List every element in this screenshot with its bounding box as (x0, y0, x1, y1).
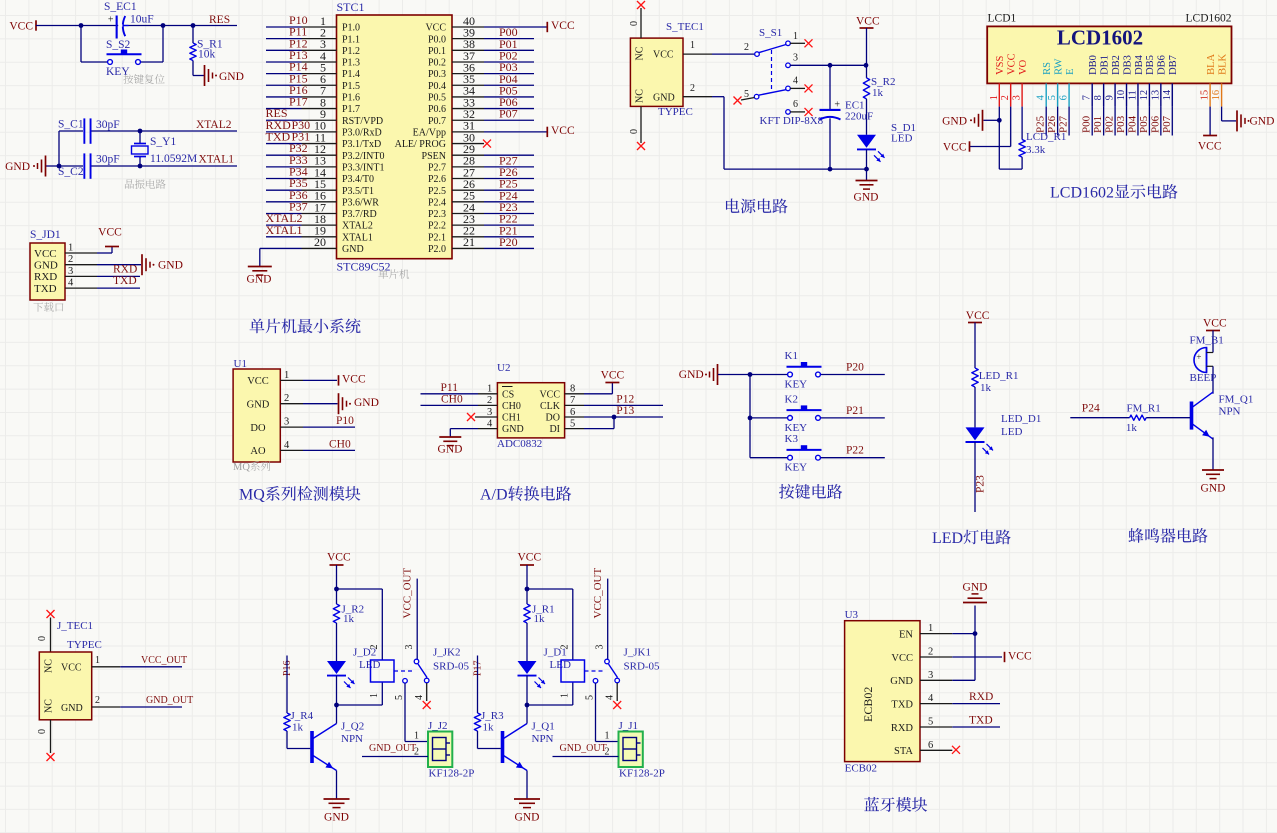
svg-text:P2.4: P2.4 (428, 197, 446, 208)
svg-text:+: + (834, 100, 840, 111)
svg-text:4: 4 (1036, 94, 1047, 100)
svg-text:5: 5 (570, 418, 575, 429)
svg-text:8: 8 (1093, 95, 1104, 100)
svg-text:7: 7 (570, 395, 575, 406)
svg-text:GND: GND (324, 812, 349, 824)
svg-text:P1.4: P1.4 (342, 69, 360, 80)
svg-text:DB0: DB0 (1088, 55, 1099, 75)
svg-text:P2.6: P2.6 (428, 174, 446, 185)
svg-text:P2.1: P2.1 (428, 232, 446, 243)
svg-text:TXD: TXD (969, 714, 993, 726)
svg-text:P03: P03 (1115, 115, 1127, 133)
svg-text:4: 4 (284, 440, 290, 451)
svg-text:220uF: 220uF (845, 111, 873, 123)
svg-text:GND: GND (247, 400, 270, 411)
svg-text:9: 9 (1105, 95, 1116, 100)
svg-text:GND_OUT: GND_OUT (146, 695, 193, 706)
svg-text:5: 5 (585, 695, 596, 700)
svg-text:BLA: BLA (1206, 53, 1217, 74)
svg-text:1: 1 (369, 693, 380, 698)
svg-text:VCC: VCC (247, 376, 269, 387)
svg-text:VCC_OUT: VCC_OUT (592, 567, 604, 618)
svg-text:1k: 1k (292, 722, 304, 734)
svg-text:LCD1602: LCD1602 (1050, 185, 1114, 202)
svg-text:CH0: CH0 (502, 401, 521, 412)
svg-text:LED: LED (550, 659, 571, 671)
svg-text:E: E (1065, 68, 1076, 74)
svg-text:13: 13 (1150, 90, 1161, 101)
svg-text:RES: RES (209, 14, 230, 26)
svg-text:J_R4: J_R4 (291, 710, 314, 722)
svg-text:1k: 1k (483, 722, 495, 734)
svg-text:SRD-05: SRD-05 (624, 661, 661, 673)
svg-text:EA/Vpp: EA/Vpp (413, 127, 446, 138)
svg-text:J_J2: J_J2 (428, 720, 448, 732)
svg-text:2: 2 (744, 42, 749, 53)
svg-text:J_JK2: J_JK2 (433, 647, 461, 659)
svg-text:GND: GND (247, 274, 272, 286)
svg-text:P0.0: P0.0 (428, 34, 446, 45)
svg-text:3: 3 (284, 417, 289, 428)
svg-text:VCC: VCC (34, 248, 57, 260)
svg-text:3: 3 (928, 670, 933, 681)
svg-text:P3.2/INT0: P3.2/INT0 (342, 151, 385, 162)
svg-text:P0.5: P0.5 (428, 93, 446, 104)
svg-text:RXD: RXD (969, 691, 993, 703)
svg-text:3.3k: 3.3k (1026, 144, 1046, 156)
svg-text:VCC: VCC (425, 23, 446, 34)
svg-text:20: 20 (314, 235, 326, 249)
svg-text:1: 1 (284, 370, 289, 381)
svg-text:KEY: KEY (785, 379, 808, 391)
svg-text:2: 2 (284, 393, 289, 404)
svg-text:1: 1 (793, 31, 798, 42)
svg-text:XTAL1: XTAL1 (342, 232, 373, 243)
svg-text:FM_R1: FM_R1 (1127, 403, 1161, 415)
svg-text:4: 4 (793, 76, 798, 87)
svg-text:VCC: VCC (1007, 53, 1018, 75)
svg-text:S_S2: S_S2 (106, 39, 131, 51)
svg-text:P02: P02 (1104, 116, 1116, 133)
svg-text:P13: P13 (616, 405, 634, 417)
svg-text:J_J1: J_J1 (619, 720, 639, 732)
svg-text:VCC: VCC (518, 552, 542, 564)
svg-text:1: 1 (928, 623, 933, 634)
svg-text:NPN: NPN (532, 733, 554, 745)
svg-text:TYPEC: TYPEC (658, 106, 693, 118)
svg-text:P1.1: P1.1 (342, 34, 360, 45)
svg-text:CLK: CLK (540, 401, 561, 412)
svg-text:RW: RW (1053, 58, 1064, 74)
svg-text:10: 10 (1116, 90, 1127, 101)
svg-text:GND: GND (963, 582, 988, 594)
svg-text:P24: P24 (1082, 403, 1100, 415)
svg-text:LED: LED (1001, 426, 1022, 438)
svg-text:STC89C52: STC89C52 (337, 260, 391, 274)
svg-text:1k: 1k (343, 613, 355, 625)
svg-text:TXD: TXD (34, 283, 57, 295)
svg-text:P0.7: P0.7 (428, 116, 446, 127)
svg-text:2: 2 (928, 647, 933, 658)
svg-text:TXD: TXD (266, 130, 291, 144)
svg-text:1k: 1k (534, 613, 546, 625)
svg-text:VCC: VCC (551, 125, 575, 137)
svg-text:NC: NC (44, 659, 55, 673)
svg-text:PSEN: PSEN (422, 151, 446, 162)
svg-text:U2: U2 (497, 362, 510, 374)
svg-text:GND: GND (219, 71, 244, 83)
svg-text:P3.1/TxD: P3.1/TxD (342, 139, 381, 150)
svg-text:KEY: KEY (106, 66, 130, 78)
svg-text:16: 16 (1211, 90, 1222, 101)
svg-text:P10: P10 (336, 415, 354, 427)
svg-text:NPN: NPN (1219, 406, 1241, 418)
svg-text:P21: P21 (846, 405, 864, 417)
svg-text:J_TEC1: J_TEC1 (57, 620, 93, 632)
svg-text:7: 7 (1082, 95, 1093, 100)
svg-text:6: 6 (793, 99, 798, 110)
svg-text:GND: GND (34, 260, 58, 272)
svg-text:P12: P12 (616, 394, 634, 406)
svg-text:1k: 1k (980, 382, 992, 394)
svg-text:30pF: 30pF (96, 119, 120, 131)
svg-text:CH0: CH0 (329, 438, 351, 450)
svg-text:10uF: 10uF (130, 14, 154, 26)
svg-text:3: 3 (1012, 95, 1023, 100)
svg-text:4: 4 (928, 693, 934, 704)
svg-text:S_Y1: S_Y1 (150, 136, 176, 148)
svg-text:8: 8 (570, 384, 575, 395)
svg-text:P0.6: P0.6 (428, 104, 446, 115)
svg-text:U1: U1 (234, 358, 247, 370)
svg-text:P1.7: P1.7 (342, 104, 360, 115)
svg-text:2: 2 (560, 645, 571, 650)
svg-text:GND_OUT: GND_OUT (560, 743, 607, 754)
svg-text:ECB02: ECB02 (861, 687, 875, 722)
svg-text:DO: DO (250, 423, 266, 434)
svg-text:11.0592M: 11.0592M (150, 153, 197, 165)
svg-text:P0.3: P0.3 (428, 69, 446, 80)
svg-text:P3.4/T0: P3.4/T0 (342, 174, 374, 185)
svg-text:DB4: DB4 (1134, 54, 1145, 75)
svg-text:+: + (1196, 352, 1201, 362)
svg-text:GND: GND (515, 812, 540, 824)
svg-text:5: 5 (1047, 95, 1058, 100)
svg-text:2: 2 (369, 645, 380, 650)
svg-text:K3: K3 (785, 433, 799, 445)
svg-text:5: 5 (394, 695, 405, 700)
svg-text:21: 21 (463, 235, 475, 249)
svg-text:2: 2 (690, 83, 695, 94)
svg-text:12: 12 (1139, 90, 1150, 101)
svg-text:2: 2 (1000, 95, 1011, 100)
svg-text:10k: 10k (198, 49, 216, 61)
svg-text:P20: P20 (846, 362, 864, 374)
svg-text:VCC: VCC (966, 310, 990, 322)
svg-text:15: 15 (1200, 90, 1211, 101)
svg-text:FM_B1: FM_B1 (1190, 335, 1224, 347)
svg-text:DB1: DB1 (1099, 55, 1110, 75)
svg-text:VCC: VCC (327, 552, 351, 564)
svg-text:P00: P00 (1081, 115, 1093, 133)
svg-text:VCC: VCC (891, 653, 913, 664)
svg-text:LCD1602: LCD1602 (1186, 13, 1232, 25)
svg-text:P1.0: P1.0 (342, 23, 360, 34)
svg-text:S_JD1: S_JD1 (30, 229, 61, 241)
svg-text:P1.3: P1.3 (342, 58, 360, 69)
svg-text:5: 5 (928, 717, 933, 728)
svg-text:1: 1 (690, 40, 695, 51)
svg-text:P11: P11 (441, 382, 459, 394)
svg-text:NC: NC (635, 46, 646, 60)
svg-text:P2.2: P2.2 (428, 221, 446, 232)
svg-text:LED_R1: LED_R1 (979, 370, 1019, 382)
svg-text:LED: LED (359, 659, 380, 671)
svg-text:BLK: BLK (1217, 53, 1228, 74)
svg-text:VCC: VCC (342, 374, 366, 386)
svg-text:DB6: DB6 (1157, 55, 1168, 75)
svg-text:S_TEC1: S_TEC1 (666, 21, 704, 33)
svg-text:P0.1: P0.1 (428, 46, 446, 57)
svg-text:P20: P20 (499, 235, 518, 249)
svg-text:P2.7: P2.7 (428, 162, 446, 173)
svg-text:4: 4 (605, 695, 616, 700)
svg-text:LCD1602: LCD1602 (1057, 26, 1143, 50)
svg-text:K1: K1 (785, 350, 798, 362)
svg-text:GND: GND (342, 244, 364, 255)
svg-text:DB7: DB7 (1168, 55, 1179, 75)
svg-text:RXD: RXD (113, 264, 137, 276)
svg-text:S_C1: S_C1 (58, 119, 84, 131)
svg-text:ALE/ PROG: ALE/ PROG (395, 139, 446, 150)
svg-text:MQ: MQ (233, 462, 250, 473)
svg-text:RXD: RXD (891, 723, 914, 734)
svg-text:P22: P22 (846, 445, 864, 457)
svg-text:J_JK1: J_JK1 (624, 647, 652, 659)
svg-text:VCC_OUT: VCC_OUT (401, 567, 413, 618)
svg-text:3: 3 (595, 645, 606, 650)
svg-text:3: 3 (68, 266, 73, 277)
svg-text:GND: GND (61, 703, 83, 714)
svg-text:3: 3 (404, 645, 415, 650)
svg-text:STC1: STC1 (337, 0, 365, 14)
svg-text:J_Q2: J_Q2 (341, 721, 364, 733)
svg-text:1k: 1k (1126, 422, 1138, 434)
svg-text:1: 1 (95, 655, 100, 666)
svg-text:P3.3/INT1: P3.3/INT1 (342, 162, 385, 173)
svg-text:U3: U3 (845, 609, 859, 621)
svg-text:P1.5: P1.5 (342, 81, 360, 92)
svg-text:P2.3: P2.3 (428, 209, 446, 220)
svg-text:EN: EN (899, 629, 913, 640)
svg-text:NC: NC (44, 699, 55, 713)
svg-text:S_S1: S_S1 (759, 27, 782, 39)
svg-text:DB3: DB3 (1122, 55, 1133, 75)
svg-text:GND_OUT: GND_OUT (369, 743, 416, 754)
svg-text:11: 11 (1127, 90, 1138, 100)
svg-text:VCC: VCC (653, 50, 674, 61)
svg-text:VCC: VCC (98, 227, 122, 239)
svg-text:TYPEC: TYPEC (67, 639, 102, 651)
svg-text:LED: LED (932, 530, 963, 547)
svg-text:K2: K2 (785, 393, 798, 405)
svg-text:STA: STA (894, 746, 913, 757)
svg-text:NC: NC (635, 89, 646, 103)
svg-text:6: 6 (1059, 95, 1070, 100)
svg-text:2: 2 (95, 695, 100, 706)
svg-text:GND: GND (942, 115, 967, 127)
svg-text:ECB02: ECB02 (845, 763, 877, 775)
svg-text:BEEP: BEEP (1190, 372, 1217, 384)
svg-text:P3.5/T1: P3.5/T1 (342, 186, 374, 197)
svg-text:GND: GND (653, 92, 675, 103)
svg-text:1: 1 (68, 243, 73, 254)
svg-text:4: 4 (68, 278, 74, 289)
svg-text:VCC: VCC (1198, 141, 1222, 153)
svg-text:DO: DO (546, 413, 560, 424)
svg-text:2: 2 (68, 254, 73, 265)
svg-text:LED: LED (891, 133, 912, 145)
svg-text:XTAL2: XTAL2 (342, 221, 373, 232)
svg-text:VSS: VSS (995, 55, 1006, 74)
svg-text:LCD1: LCD1 (988, 13, 1017, 25)
svg-text:NPN: NPN (341, 733, 363, 745)
svg-text:VCC: VCC (9, 21, 33, 33)
svg-text:P0.4: P0.4 (428, 81, 446, 92)
svg-text:VCC_OUT: VCC_OUT (141, 655, 187, 666)
svg-text:CH1: CH1 (502, 413, 521, 424)
svg-text:VCC: VCC (856, 16, 880, 28)
svg-text:DB5: DB5 (1145, 55, 1156, 75)
svg-text:TXD: TXD (891, 699, 913, 710)
svg-text:KEY: KEY (785, 462, 808, 474)
svg-text:VCC: VCC (943, 142, 967, 154)
svg-text:ADC0832: ADC0832 (497, 438, 542, 450)
svg-text:J_Q1: J_Q1 (532, 721, 555, 733)
svg-text:P01: P01 (1092, 116, 1104, 133)
svg-text:2: 2 (487, 395, 492, 406)
svg-text:GND: GND (1250, 116, 1275, 128)
svg-text:GND: GND (354, 397, 379, 409)
svg-text:0: 0 (629, 21, 640, 26)
svg-text:LCD_R1: LCD_R1 (1026, 131, 1066, 143)
svg-text:6: 6 (928, 740, 933, 751)
svg-text:P1.6: P1.6 (342, 93, 360, 104)
svg-text:FM_Q1: FM_Q1 (1219, 394, 1254, 406)
svg-text:MQ: MQ (239, 487, 265, 504)
svg-text:VCC: VCC (539, 389, 560, 400)
svg-text:P07: P07 (499, 107, 518, 121)
svg-text:GND: GND (5, 161, 30, 173)
svg-text:S_EC1: S_EC1 (104, 1, 137, 13)
svg-text:3: 3 (793, 53, 798, 64)
svg-text:A/D: A/D (480, 487, 508, 504)
svg-text:GND: GND (1201, 483, 1226, 495)
svg-text:P3.7/RD: P3.7/RD (342, 209, 377, 220)
svg-text:P0.2: P0.2 (428, 58, 446, 69)
svg-text:GND: GND (679, 369, 704, 381)
svg-text:4: 4 (487, 418, 493, 429)
svg-text:GND: GND (502, 424, 524, 435)
svg-text:XTAL1: XTAL1 (266, 223, 303, 237)
svg-text:J_R3: J_R3 (481, 710, 504, 722)
svg-text:VCC: VCC (551, 20, 575, 32)
svg-text:1: 1 (560, 693, 571, 698)
svg-text:KEY: KEY (785, 422, 808, 434)
svg-text:P23: P23 (975, 475, 987, 493)
svg-text:1: 1 (414, 731, 419, 742)
svg-text:CS: CS (502, 389, 514, 400)
svg-text:1: 1 (989, 95, 1000, 100)
svg-text:1k: 1k (872, 87, 884, 99)
svg-text:P06: P06 (1149, 115, 1161, 133)
svg-text:VCC: VCC (601, 370, 625, 382)
svg-text:VCC: VCC (61, 663, 82, 674)
svg-text:GND: GND (438, 444, 463, 456)
svg-text:DI: DI (549, 424, 560, 435)
svg-text:P3.0/RxD: P3.0/RxD (342, 127, 382, 138)
svg-text:CH0: CH0 (441, 394, 463, 406)
svg-text:P1.2: P1.2 (342, 46, 360, 57)
svg-text:GND: GND (854, 192, 879, 204)
svg-text:1: 1 (605, 731, 610, 742)
svg-text:AO: AO (250, 446, 266, 457)
svg-text:30pF: 30pF (96, 154, 120, 166)
svg-text:P2.5: P2.5 (428, 186, 446, 197)
svg-text:3: 3 (487, 407, 492, 418)
svg-text:VCC: VCC (1008, 651, 1032, 663)
svg-text:GND: GND (890, 676, 913, 687)
svg-text:TXD: TXD (113, 275, 137, 287)
svg-text:VO: VO (1018, 59, 1029, 75)
svg-text:LED_D1: LED_D1 (1001, 413, 1041, 425)
svg-text:P2.0: P2.0 (428, 244, 446, 255)
svg-text:P05: P05 (1138, 115, 1150, 133)
svg-text:RXD: RXD (34, 271, 57, 283)
svg-text:VCC: VCC (1203, 318, 1227, 330)
svg-text:KFT DIP-8X8: KFT DIP-8X8 (760, 115, 824, 127)
svg-text:XTAL1: XTAL1 (199, 154, 235, 166)
svg-text:RST/VPD: RST/VPD (342, 116, 383, 127)
svg-text:P04: P04 (1126, 115, 1138, 133)
svg-text:KF128-2P: KF128-2P (429, 768, 475, 780)
svg-text:SRD-05: SRD-05 (433, 661, 470, 673)
svg-text:GND: GND (158, 260, 183, 272)
svg-text:14: 14 (1162, 89, 1173, 100)
svg-text:KF128-2P: KF128-2P (619, 768, 665, 780)
svg-text:P3.6/WR: P3.6/WR (342, 197, 379, 208)
svg-text:0: 0 (37, 636, 48, 641)
svg-text:4: 4 (414, 695, 425, 700)
svg-text:0: 0 (629, 129, 640, 134)
svg-text:1: 1 (487, 384, 492, 395)
svg-text:6: 6 (570, 407, 575, 418)
svg-text:P07: P07 (1161, 115, 1173, 133)
svg-text:+: + (108, 14, 114, 25)
svg-text:XTAL2: XTAL2 (196, 119, 232, 131)
svg-text:S_C2: S_C2 (58, 166, 84, 178)
svg-text:P17: P17 (289, 95, 308, 109)
svg-text:0: 0 (37, 729, 48, 734)
svg-text:DB2: DB2 (1111, 55, 1122, 75)
svg-text:RS: RS (1042, 62, 1053, 75)
